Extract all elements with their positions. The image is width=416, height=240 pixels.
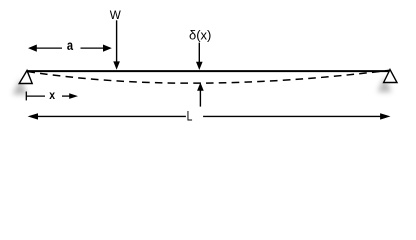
svg-text:x: x [49,88,55,102]
svg-text:δ(x): δ(x) [189,28,211,43]
svg-text:a: a [67,37,73,53]
svg-text:L: L [187,107,193,123]
svg-text:W: W [110,9,121,22]
